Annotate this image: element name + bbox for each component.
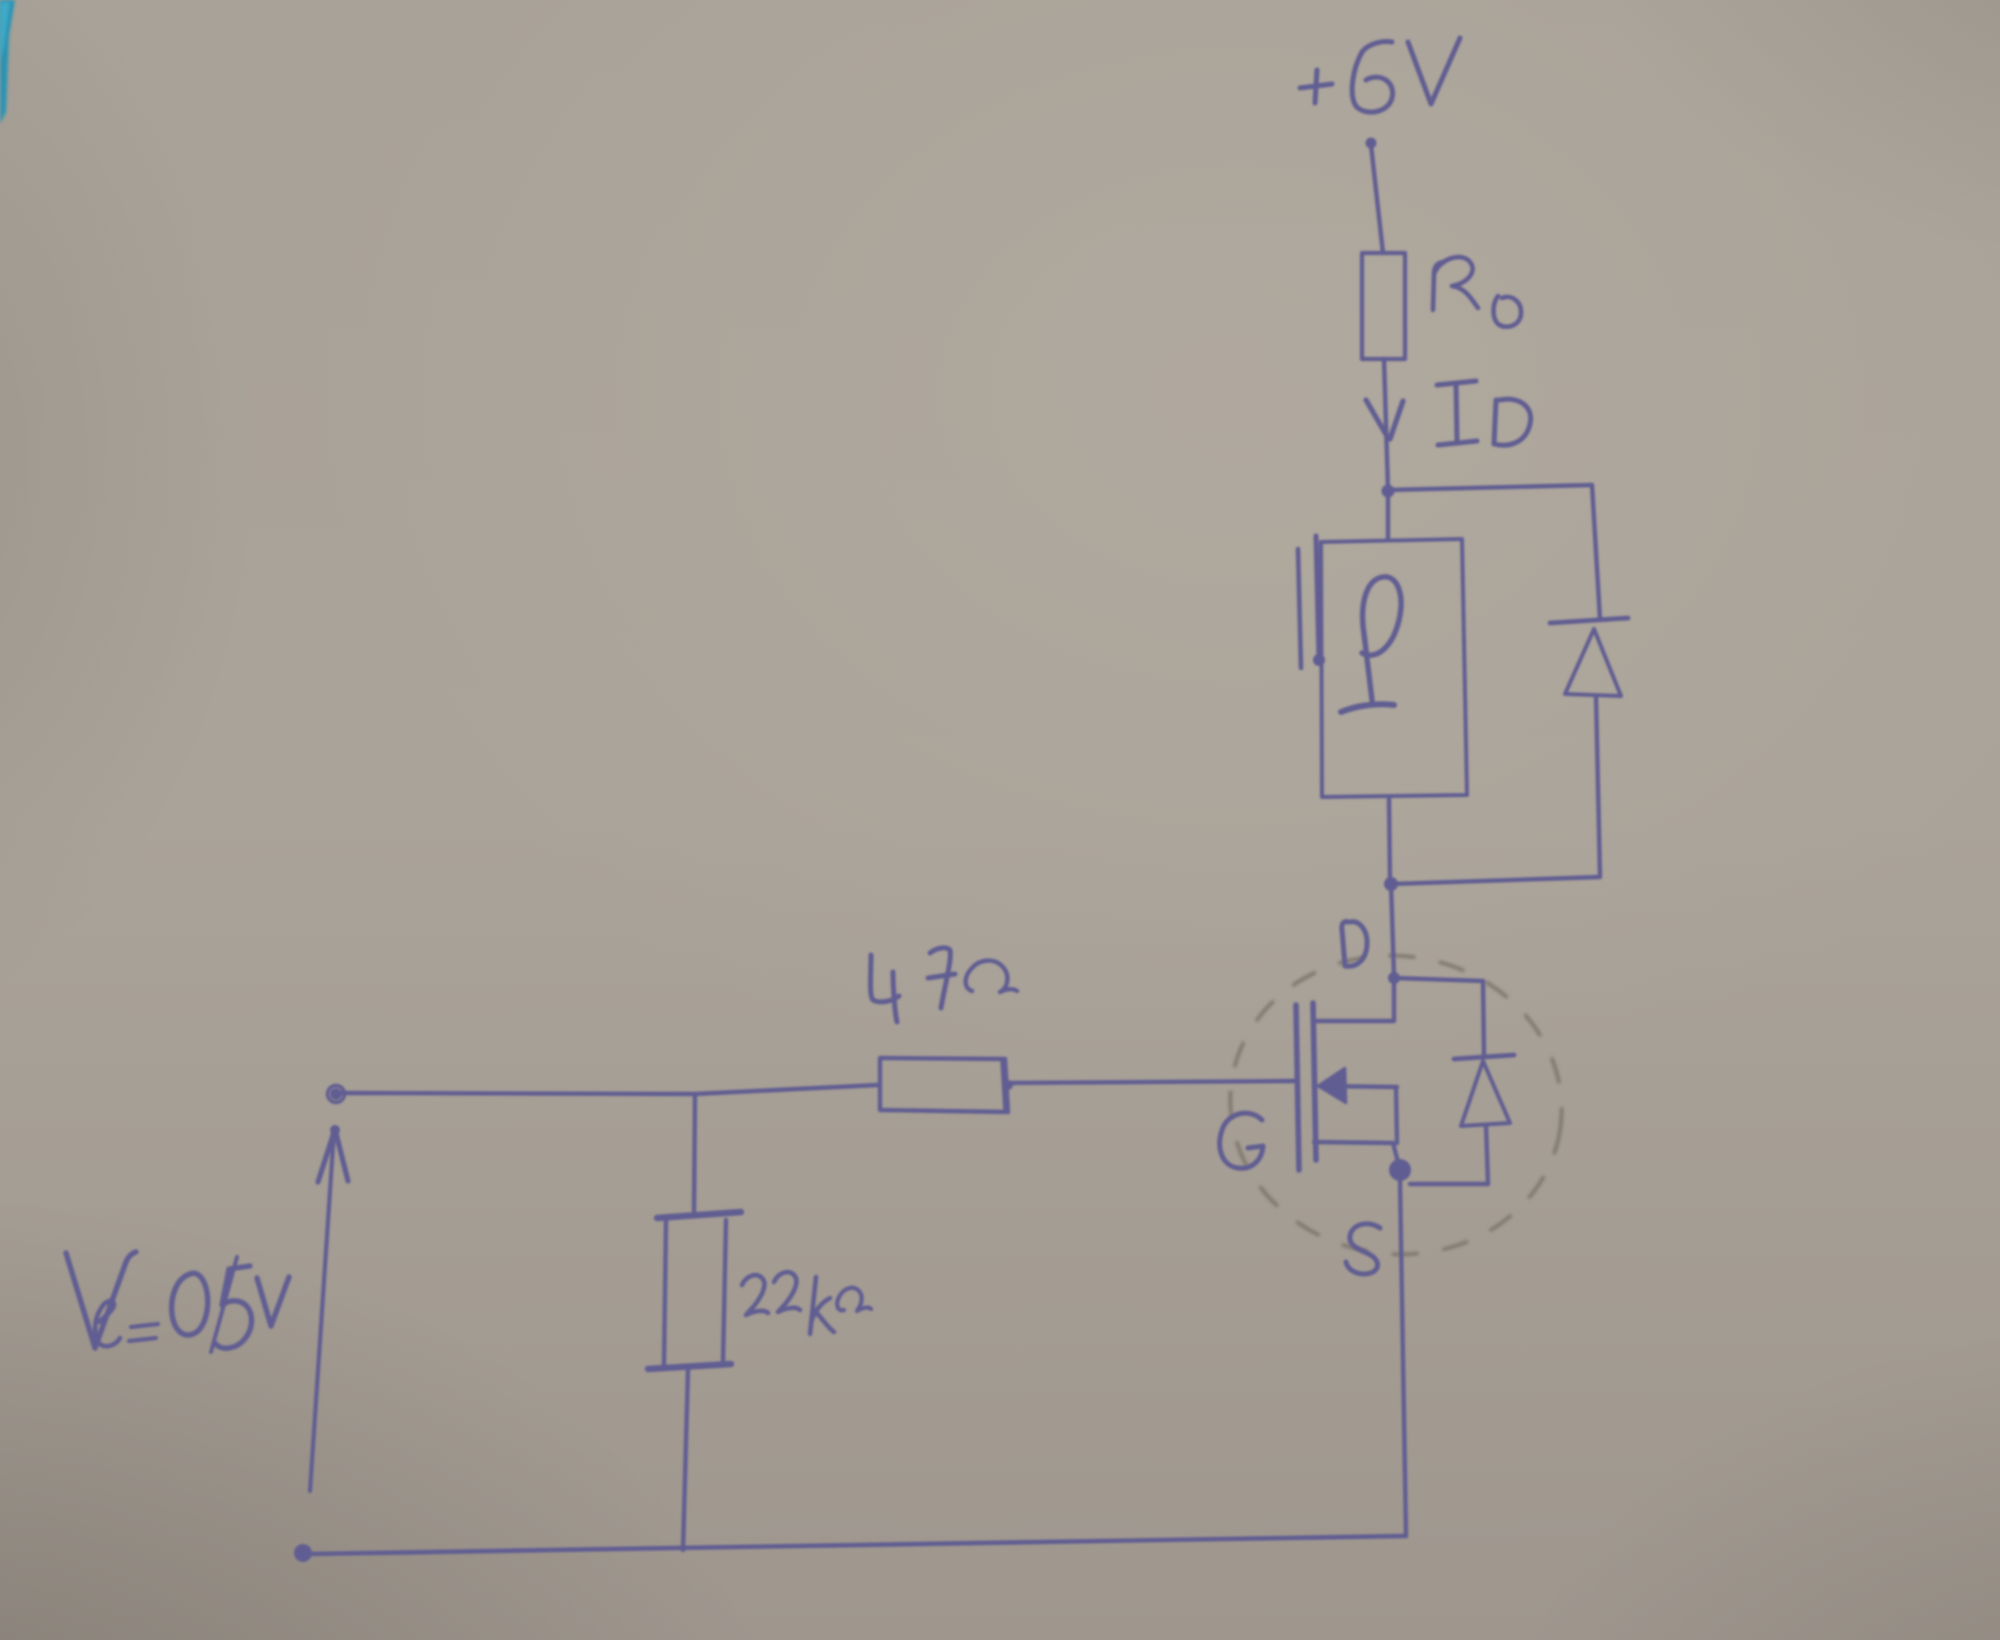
MOSFET Q1 source lead [1314, 1142, 1399, 1166]
MOSFET Q1 gate bar [1296, 1005, 1299, 1170]
wire from +6V to resistor RD [1366, 138, 1377, 149]
wire source node down to bottom rail [1400, 1181, 1406, 1536]
wire node A to diode D1 branch (top) [1388, 485, 1600, 619]
wire diode D1 down to node B [1393, 696, 1600, 884]
wire relay coil to node B [1389, 797, 1390, 882]
current arrow ID head [1366, 400, 1403, 439]
label D (drain) [1342, 921, 1367, 966]
diode D1 triangle [1565, 629, 1621, 696]
resistor 22k body [664, 1221, 666, 1364]
label Ve = 0/5V [66, 1252, 289, 1352]
wire input terminal to 47R [341, 1085, 878, 1094]
Ve arrow [310, 1131, 334, 1491]
wire node A down to relay coil [1386, 491, 1390, 540]
wire drain node to body diode D2 [1394, 978, 1484, 1055]
wire RD to node A with current arrow ID [1384, 359, 1388, 490]
node A (relay top junction) [1382, 485, 1395, 498]
label S (source) [1346, 1224, 1380, 1274]
body diode D2 cathode bar [1454, 1055, 1514, 1059]
diode D1 cathode bar [1550, 618, 1628, 623]
node S (source junction) [1389, 1159, 1411, 1181]
supply label +6V [1300, 38, 1460, 112]
MOSFET Q1 channel bar [1313, 1003, 1316, 1160]
MOSFET Q1 body lead with substrate arrow [1322, 1086, 1397, 1087]
wire body diode D2 to source node [1410, 1125, 1488, 1184]
wire node B to drain node [1391, 884, 1394, 976]
label 22 kOhm [742, 1272, 871, 1334]
node B [1384, 877, 1398, 891]
body diode D2 triangle [1461, 1061, 1510, 1126]
wire junction down to 22k [694, 1094, 695, 1214]
label ID [1437, 381, 1531, 445]
resistor 22k top lead bar [657, 1212, 741, 1218]
table background corner (cyan) [0, 0, 15, 124]
relay coil K1 box [1321, 539, 1467, 797]
stray double stroke left of coil [1298, 549, 1301, 668]
MOSFET Q1 drain stub [1317, 978, 1394, 1021]
label G (gate) [1220, 1113, 1263, 1168]
resistor RD [1362, 253, 1405, 359]
transistor package outline (pencil dashed circle) [1211, 934, 1581, 1275]
input terminal - [294, 1544, 312, 1562]
bottom rail [310, 1536, 1406, 1554]
resistor 47R [880, 1058, 1008, 1112]
gate wire from 47R to gate [1010, 1081, 1296, 1083]
input terminal + [330, 1088, 342, 1100]
label 47 ohm [871, 948, 1018, 1022]
label RD [1433, 257, 1521, 327]
node D (drain junction) [1388, 972, 1400, 984]
relay coil symbol (script rho) [1341, 577, 1401, 712]
wire 22k to bottom rail [683, 1369, 688, 1550]
